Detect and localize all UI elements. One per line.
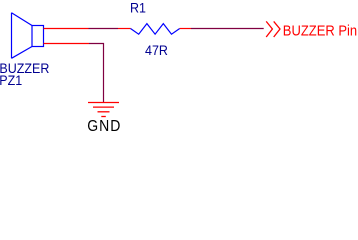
terminal chevron 1 <box>266 21 272 37</box>
resistor R1 right pin (red) <box>180 28 191 30</box>
buzzer PZ1 driver rectangle <box>32 26 44 47</box>
ground symbol bar 4 <box>101 116 106 118</box>
resistor R1 zigzag body <box>131 24 180 35</box>
wire: buzzer pin1 to R1 (net) <box>89 28 119 30</box>
ground symbol bar 2 <box>93 106 114 108</box>
svg-text:R1: R1 <box>130 0 146 16</box>
ground symbol bar 1 <box>88 102 119 104</box>
buzzer pin 2 (bottom, red) <box>44 43 90 45</box>
terminal chevron 2 <box>274 21 280 37</box>
svg-text:PZ1: PZ1 <box>0 72 22 88</box>
buzzer PZ1 speaker cone <box>12 13 33 59</box>
buzzer pin 1 (top, red) <box>44 28 89 30</box>
ground symbol bar 3 <box>98 111 110 113</box>
svg-text:GND: GND <box>87 118 121 134</box>
svg-text:47R: 47R <box>145 42 168 58</box>
svg-text:BUZZER Pin: BUZZER Pin <box>283 22 357 39</box>
wire: R1 to buzzer pin terminal <box>191 28 264 30</box>
wire: buzzer pin2 to ground (horizontal then vertical) <box>89 44 104 103</box>
resistor R1 left pin (red) <box>118 28 131 30</box>
